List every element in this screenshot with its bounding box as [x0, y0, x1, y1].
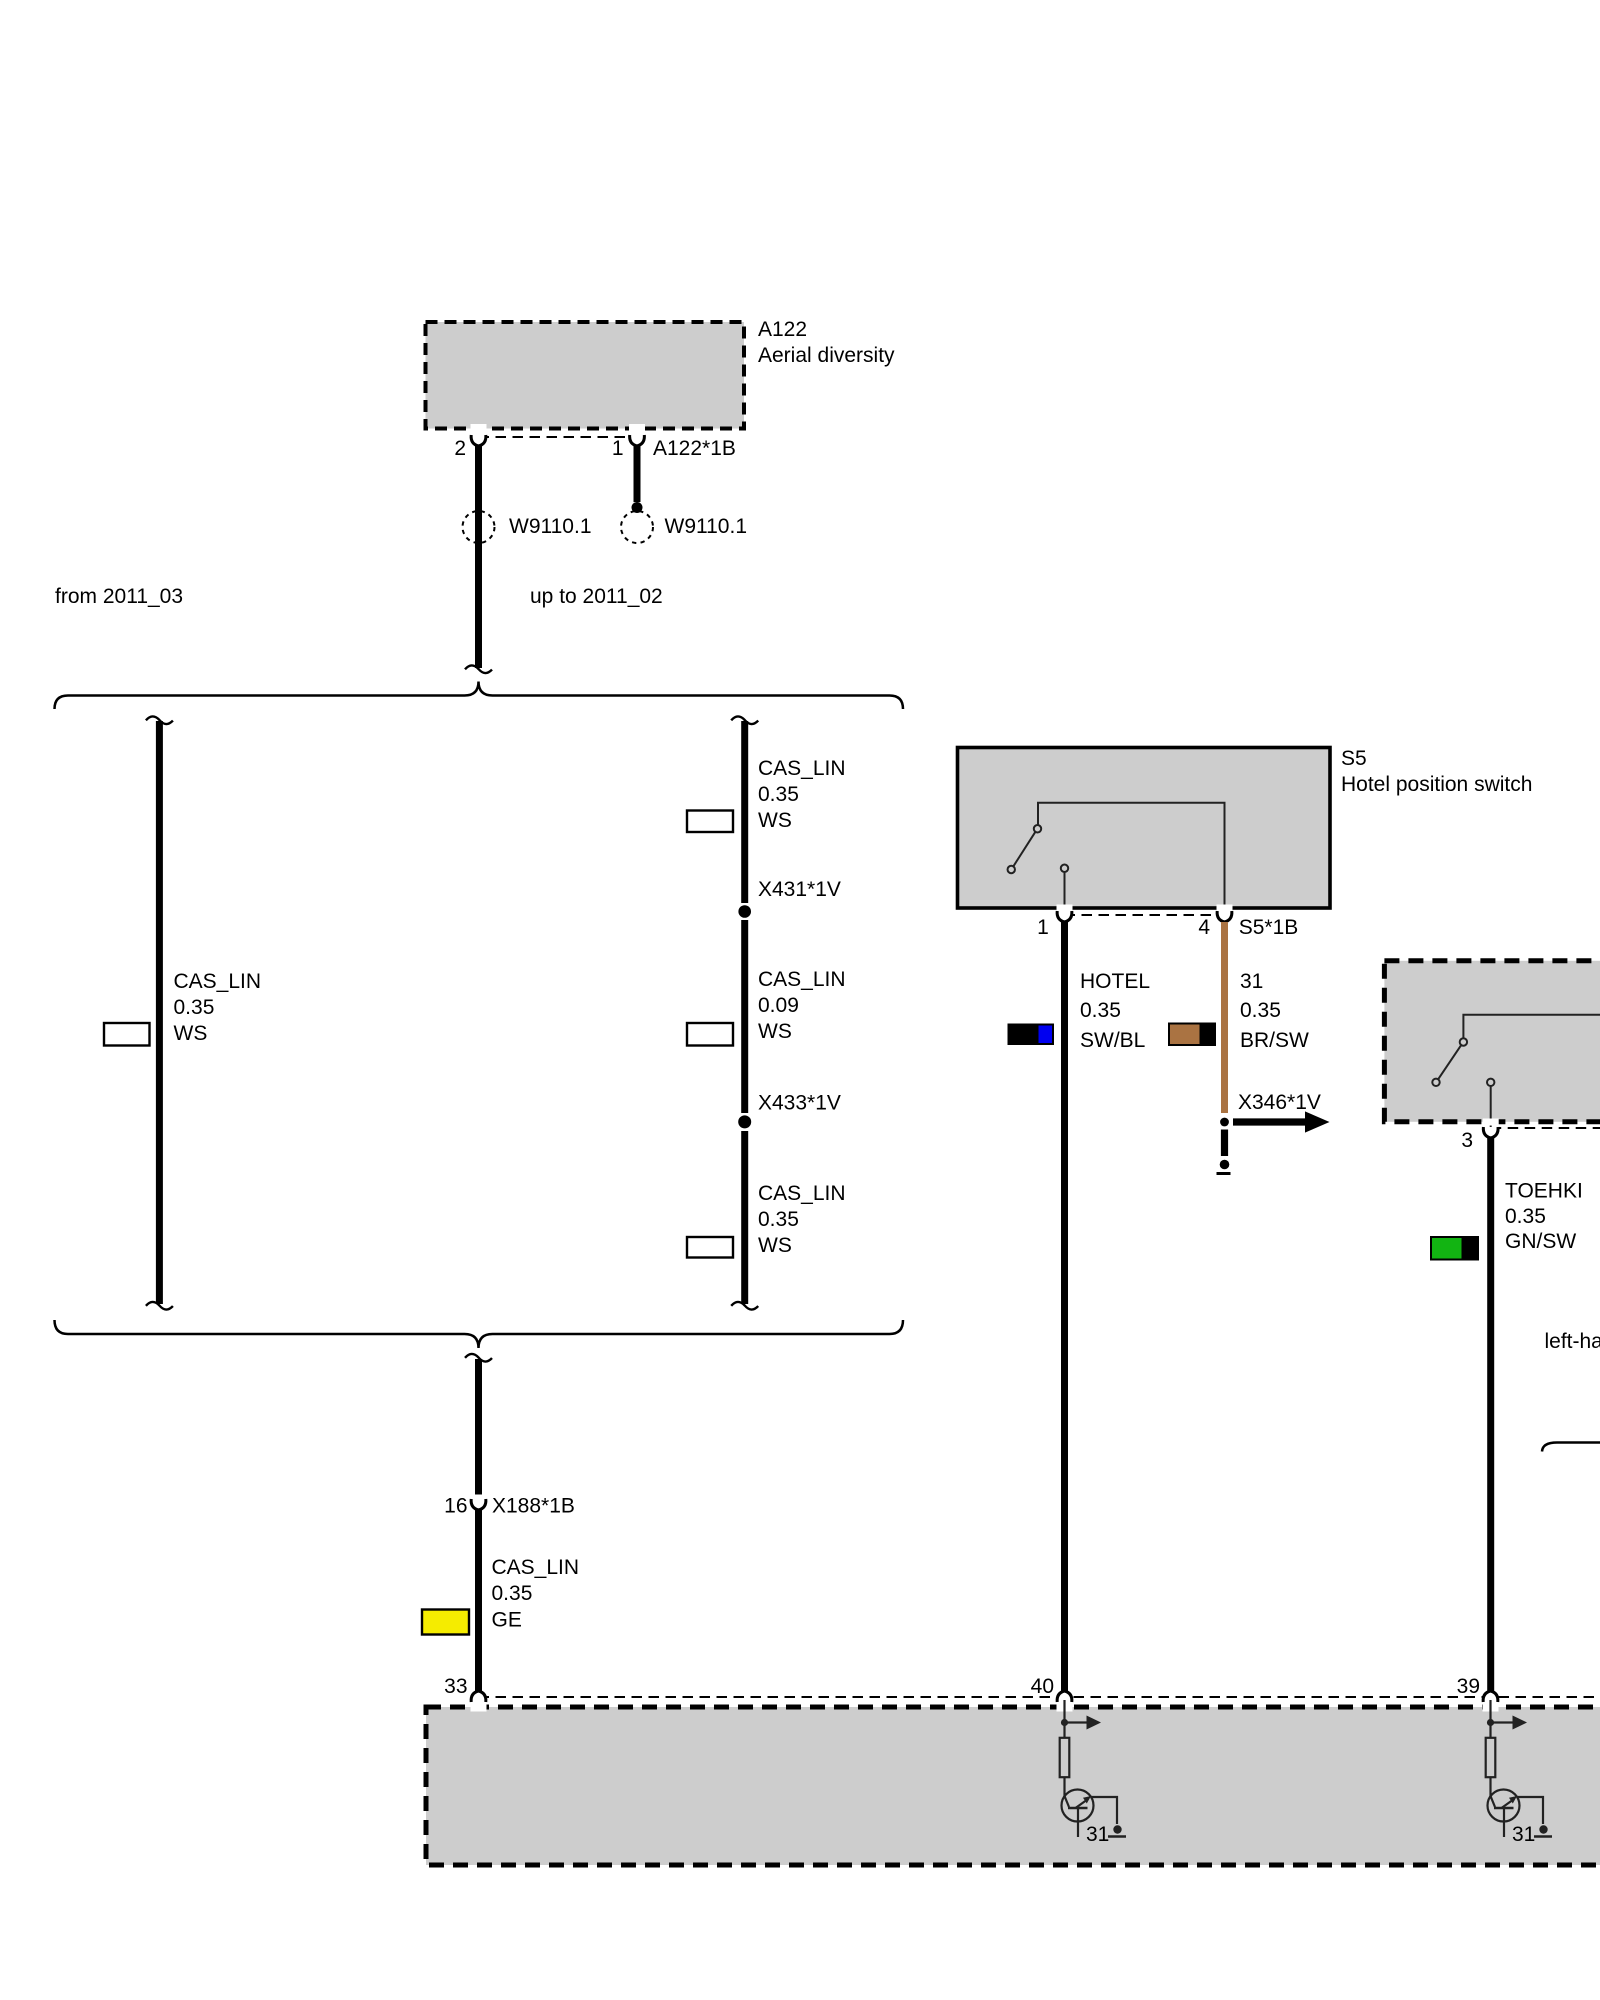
- svg-text:from 2011_03: from 2011_03: [55, 585, 183, 608]
- svg-text:TOEHKI: TOEHKI: [1505, 1180, 1583, 1203]
- svg-text:SW/BL: SW/BL: [1080, 1029, 1145, 1052]
- svg-text:A122: A122: [758, 318, 807, 341]
- svg-text:0.35: 0.35: [1505, 1205, 1546, 1228]
- svg-text:Aerial diversity: Aerial diversity: [758, 344, 895, 367]
- svg-text:X346*1V: X346*1V: [1238, 1091, 1321, 1114]
- svg-text:WS: WS: [758, 1234, 792, 1257]
- svg-text:CAS_LIN: CAS_LIN: [174, 970, 262, 993]
- svg-text:0.35: 0.35: [758, 783, 799, 806]
- svg-text:1: 1: [1037, 916, 1049, 939]
- svg-text:X431*1V: X431*1V: [758, 878, 841, 901]
- svg-text:Hotel position switch: Hotel position switch: [1341, 773, 1532, 796]
- svg-text:16: 16: [444, 1495, 467, 1518]
- svg-text:0.35: 0.35: [758, 1208, 799, 1231]
- svg-text:31: 31: [1240, 970, 1263, 993]
- svg-text:0.09: 0.09: [758, 994, 799, 1017]
- svg-text:CAS_LIN: CAS_LIN: [758, 757, 846, 780]
- svg-text:HOTEL: HOTEL: [1080, 970, 1150, 993]
- svg-text:X188*1B: X188*1B: [492, 1495, 575, 1518]
- svg-text:BR/SW: BR/SW: [1240, 1029, 1309, 1052]
- svg-text:39: 39: [1457, 1675, 1480, 1698]
- svg-text:2: 2: [454, 437, 466, 460]
- svg-text:33: 33: [444, 1675, 467, 1698]
- svg-text:up to 2011_02: up to 2011_02: [530, 585, 663, 608]
- svg-text:GN/SW: GN/SW: [1505, 1230, 1576, 1253]
- svg-text:WS: WS: [758, 1020, 792, 1043]
- svg-text:W9110.1: W9110.1: [665, 515, 748, 538]
- svg-text:CAS_LIN: CAS_LIN: [492, 1556, 580, 1579]
- svg-text:GE: GE: [492, 1609, 522, 1632]
- svg-text:W9110.1: W9110.1: [509, 515, 592, 538]
- svg-text:3: 3: [1461, 1129, 1473, 1152]
- svg-text:CAS_LIN: CAS_LIN: [758, 968, 846, 991]
- svg-text:left-hand drive: left-hand drive: [1545, 1330, 1600, 1353]
- svg-text:0.35: 0.35: [492, 1582, 533, 1605]
- svg-text:40: 40: [1031, 1675, 1054, 1698]
- svg-text:4: 4: [1198, 916, 1210, 939]
- svg-text:0.35: 0.35: [1240, 999, 1281, 1022]
- svg-text:A122*1B: A122*1B: [653, 437, 736, 460]
- svg-text:CAS_LIN: CAS_LIN: [758, 1182, 846, 1205]
- svg-text:1: 1: [612, 437, 624, 460]
- svg-text:S5*1B: S5*1B: [1239, 916, 1299, 939]
- svg-text:S5: S5: [1341, 747, 1367, 770]
- svg-text:0.35: 0.35: [1080, 999, 1121, 1022]
- svg-text:WS: WS: [758, 809, 792, 832]
- svg-text:X433*1V: X433*1V: [758, 1091, 841, 1114]
- svg-text:WS: WS: [174, 1022, 208, 1045]
- svg-text:0.35: 0.35: [174, 996, 215, 1019]
